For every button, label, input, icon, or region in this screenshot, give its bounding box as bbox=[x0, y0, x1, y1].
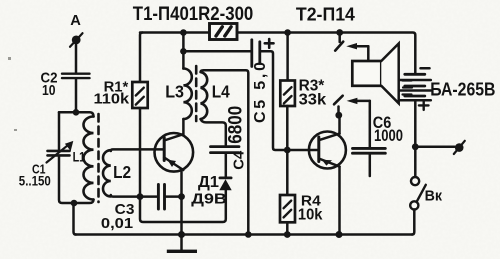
inductor L3 bbox=[183, 69, 191, 119]
svg-text:Д1: Д1 bbox=[198, 174, 219, 191]
plug contact bottom bbox=[334, 96, 370, 116]
switch Vk bbox=[410, 177, 426, 209]
capacitor C3 bbox=[158, 185, 164, 210]
svg-text:C4: C4 bbox=[232, 150, 248, 170]
transistor T2 bbox=[309, 132, 346, 169]
wire L4 top to down-lead bbox=[201, 70, 249, 234]
ground bbox=[167, 235, 197, 254]
core L1/L2 bbox=[97, 114, 100, 202]
svg-text:Вк: Вк bbox=[425, 188, 443, 204]
resistor R1 bbox=[132, 82, 147, 108]
wire tank to ground rail bbox=[74, 203, 77, 235]
wire T2 collector up bbox=[338, 115, 341, 133]
wire antenna to C2 bbox=[75, 44, 78, 73]
resistor R3 bbox=[280, 81, 295, 107]
wire T2 emitter to rail bbox=[338, 167, 341, 235]
plug contact top bbox=[335, 33, 368, 51]
top rail bbox=[140, 33, 415, 74]
node rail/L3 junction bbox=[180, 29, 187, 36]
speaker bbox=[352, 44, 412, 104]
node T2 emitter/rail bbox=[336, 231, 343, 238]
wire T1 collector up to L3 bbox=[182, 119, 185, 135]
svg-text:А: А bbox=[70, 13, 81, 29]
wire to switch bbox=[414, 147, 417, 177]
wire L3 top riser bbox=[182, 33, 185, 69]
inductor L2 bbox=[103, 150, 111, 196]
wire R4 bottom bbox=[286, 222, 289, 234]
wire T1 emitter down to rail bbox=[180, 170, 183, 235]
svg-text:L3: L3 bbox=[165, 81, 184, 101]
node R3/R4/base junction bbox=[284, 147, 291, 154]
svg-text:L1: L1 bbox=[73, 150, 86, 165]
wire R1 top from rail bbox=[140, 33, 143, 83]
svg-text:10: 10 bbox=[42, 83, 56, 99]
svg-text:5..150: 5..150 bbox=[19, 173, 51, 189]
node rail/R3 junction bbox=[284, 29, 291, 36]
wire to output terminal bbox=[415, 146, 454, 149]
svg-text:0,01: 0,01 bbox=[101, 216, 133, 232]
wire L4 bottom to C4 bbox=[201, 119, 226, 145]
inductor L4 bbox=[201, 72, 208, 119]
node collector/speaker junction bbox=[335, 112, 342, 119]
wire C5 feed bbox=[183, 50, 250, 53]
resistor R2 bbox=[210, 24, 238, 40]
diode D1 bbox=[219, 178, 231, 190]
node antenna/tank junction bbox=[73, 109, 80, 116]
wire C5 right to T2 base bbox=[261, 51, 317, 150]
scan speckles bbox=[8, 57, 17, 131]
inductor L1 bbox=[84, 117, 94, 200]
wire to speaker top bbox=[367, 46, 370, 61]
output terminal bbox=[454, 141, 465, 154]
node R1/L2/C3 junction bbox=[137, 193, 144, 200]
node rail/speaker junction bbox=[336, 29, 343, 36]
node emitter/rail bbox=[178, 231, 185, 238]
svg-text:L2: L2 bbox=[113, 162, 131, 182]
svg-text:110k: 110k bbox=[94, 91, 130, 108]
node L4 lead / rail bbox=[245, 231, 252, 238]
wire R4 top bbox=[286, 150, 289, 195]
wire C1 branch top bbox=[58, 112, 61, 149]
wire L2 top to T1 base bbox=[111, 149, 164, 151]
battery BA bbox=[399, 68, 431, 110]
svg-text:БА-265В: БА-265В bbox=[430, 80, 495, 100]
wire R3 bottom bbox=[286, 106, 289, 150]
node L3/C5 junction bbox=[180, 48, 187, 55]
wire C4 to D1 bbox=[225, 154, 228, 176]
wire R1 bottom crossing base wire down to feedback loop bbox=[139, 108, 142, 197]
antenna terminal A bbox=[70, 33, 83, 47]
wire tank top bbox=[59, 112, 94, 116]
capacitor C6 bbox=[353, 148, 386, 176]
label C5 plus bbox=[265, 39, 274, 48]
capacitor C5 bbox=[252, 40, 260, 67]
transistor T1 bbox=[155, 133, 194, 172]
svg-text:33k: 33k bbox=[299, 91, 327, 108]
bottom rail bbox=[75, 233, 413, 236]
core L3/L4 bbox=[195, 66, 198, 121]
wire speaker bottom to C6 bbox=[369, 101, 372, 147]
wire R3 top bbox=[286, 33, 289, 81]
capacitor C1 variable bbox=[47, 141, 74, 163]
svg-text:Т1-П401R2-300: Т1-П401R2-300 bbox=[133, 4, 254, 25]
wire C1 branch bottom bbox=[59, 157, 74, 203]
capacitor C2 bbox=[62, 74, 90, 78]
node tank bottom bbox=[71, 200, 78, 207]
svg-text:Д9В: Д9В bbox=[191, 191, 227, 208]
wire C3 right to emitter line bbox=[166, 195, 182, 198]
svg-text:6800: 6800 bbox=[226, 106, 247, 144]
wire L2 bottom to C3 bbox=[111, 195, 157, 197]
wire feedback loop to diode bbox=[140, 190, 226, 222]
node battery/output junction bbox=[412, 143, 419, 150]
wire C2 to tank top bbox=[75, 79, 78, 112]
resistor R4 bbox=[280, 195, 295, 222]
svg-text:10k: 10k bbox=[298, 207, 323, 224]
capacitor C4 bbox=[211, 147, 240, 153]
svg-text:L4: L4 bbox=[212, 81, 230, 101]
wire switch to rail bbox=[412, 210, 414, 235]
node R4/rail bbox=[284, 231, 291, 238]
svg-text:1000: 1000 bbox=[374, 127, 403, 145]
wire battery to output node bbox=[414, 102, 417, 147]
wire L1 bottom to tank bottom bbox=[74, 200, 94, 204]
node C3/emitter junction bbox=[178, 193, 185, 200]
svg-text:Т2-П14: Т2-П14 bbox=[296, 3, 356, 24]
